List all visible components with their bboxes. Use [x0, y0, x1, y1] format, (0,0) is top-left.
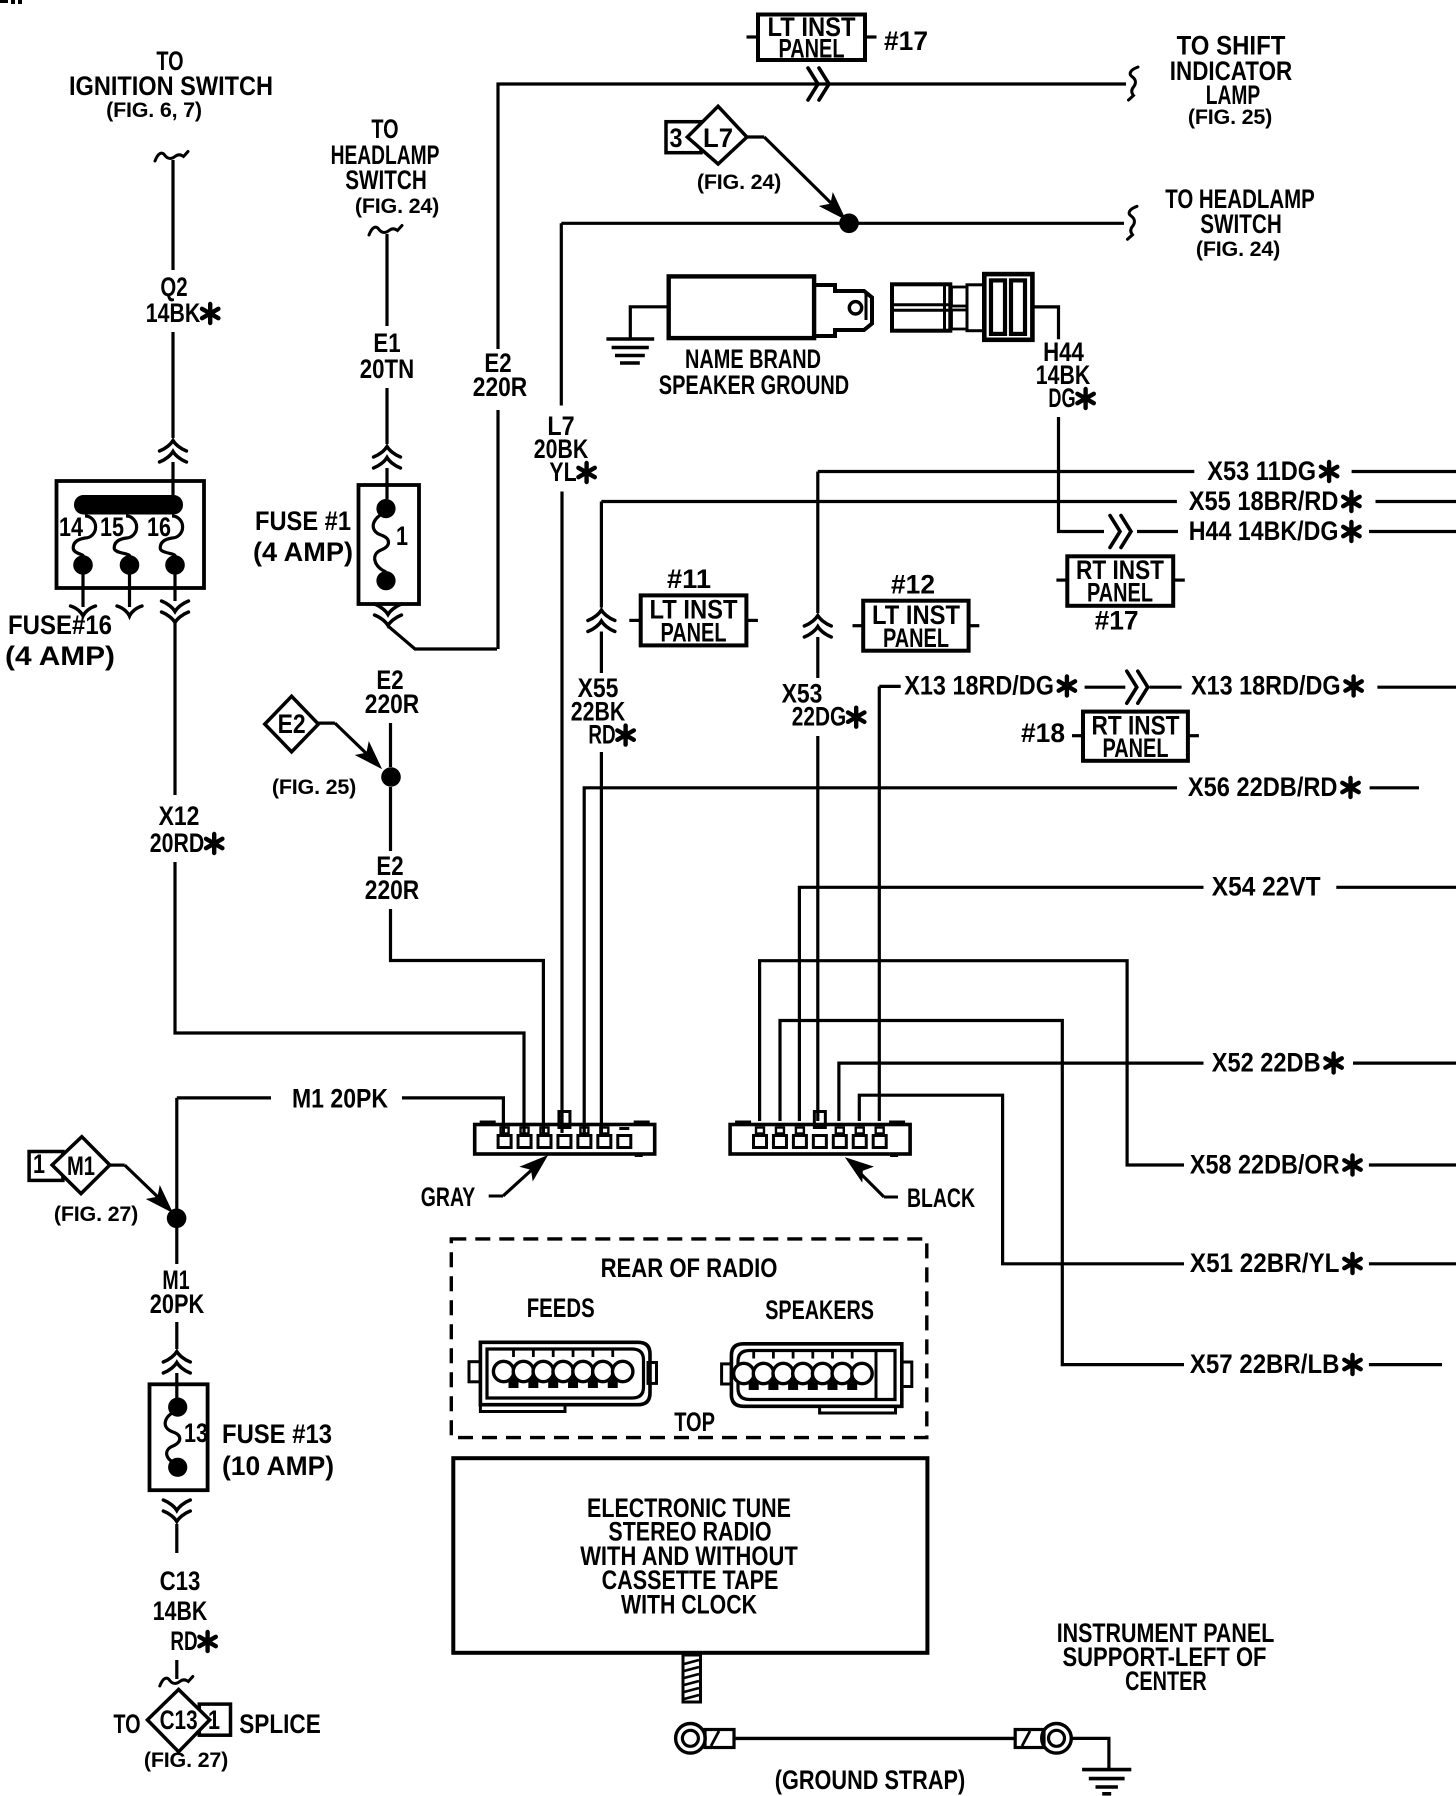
connector SPEAKERS	[731, 1344, 901, 1407]
leader to E2 junction	[335, 723, 370, 757]
pin 2 terminal	[776, 1128, 784, 1134]
wire X56 row right segment	[1370, 786, 1419, 789]
wire Q2 upper segment	[171, 160, 174, 270]
svg-text:(10 AMP): (10 AMP)	[222, 1451, 334, 1481]
wire H44 from socket	[1032, 307, 1058, 339]
wire X51 from BLACK pin6	[859, 1095, 1184, 1264]
svg-text:(4 AMP): (4 AMP)	[5, 641, 115, 671]
wire X51 row to edge	[1369, 1262, 1456, 1265]
wire H44 row to edge	[1369, 530, 1456, 533]
wire M1 to GRAY pin1	[402, 1098, 503, 1133]
speaker blade terminal	[814, 285, 872, 336]
connector FEEDS	[480, 1342, 650, 1404]
pin 7 terminal dash	[619, 1127, 629, 1130]
H44 crimp lower	[952, 310, 968, 329]
wire H44 row segment	[1137, 530, 1178, 533]
svg-text:X52 22DB: X52 22DB	[1212, 1048, 1321, 1078]
svg-text:1: 1	[33, 1149, 45, 1179]
wire X57 row right segment	[1369, 1363, 1442, 1366]
terminal 14 lead	[81, 565, 84, 607]
terminal 15 lead	[128, 565, 131, 607]
svg-text:1: 1	[208, 1705, 220, 1735]
wire X58 from BLACK pin1	[760, 961, 1184, 1165]
pin 2 terminal	[521, 1128, 529, 1134]
pin 1 terminal	[501, 1128, 509, 1134]
wire Q2 lower segment	[171, 332, 174, 438]
svg-text:(FIG. 24): (FIG. 24)	[697, 170, 781, 194]
stub left #11 box	[629, 619, 640, 622]
wire X55 18BR row	[601, 500, 1177, 503]
box ELECTRONIC TUNE STEREO RADIO	[453, 1458, 927, 1653]
continuation chevron below F16	[162, 601, 189, 623]
svg-text:PANEL: PANEL	[1103, 733, 1169, 763]
svg-text:20PK: 20PK	[150, 1289, 205, 1319]
pin 6 terminal	[856, 1128, 864, 1134]
fuse block F16 outline	[57, 481, 205, 588]
terminal 16 lead	[173, 565, 176, 601]
stub left #12 box	[853, 624, 864, 627]
splice symbol C13	[147, 1690, 209, 1752]
svg-text:X58 22DB/OR: X58 22DB/OR	[1190, 1150, 1340, 1180]
wire X13 vertical to BLACK pin7	[878, 686, 881, 1121]
continuation chevron below F1	[375, 604, 402, 626]
fuse F13 outline	[150, 1384, 208, 1490]
wire X12 to GRAY pin2	[175, 862, 524, 1133]
svg-text:X54 22VT: X54 22VT	[1212, 872, 1321, 902]
svg-text:PANEL: PANEL	[779, 34, 845, 64]
wire X13 mid segment	[1085, 686, 1126, 689]
wire X53 vertical mid	[816, 637, 819, 678]
svg-text:3: 3	[670, 123, 683, 153]
wire L7 vertical upper	[560, 223, 563, 405]
svg-text:E2: E2	[278, 709, 306, 739]
svg-text:(FIG. 25): (FIG. 25)	[1188, 105, 1272, 129]
H44 crimp upper	[952, 287, 968, 306]
svg-text:#12: #12	[891, 570, 935, 600]
svg-text:X13 18RD/DG: X13 18RD/DG	[1191, 671, 1341, 701]
svg-text:14BK: 14BK	[146, 298, 201, 328]
svg-text:X53 11DG: X53 11DG	[1207, 456, 1316, 486]
connector box LT INST PANEL #11	[641, 595, 747, 645]
SPEAKERS right tab	[902, 1362, 912, 1387]
splice symbol M1	[52, 1137, 110, 1194]
blade hole	[849, 302, 861, 314]
page edge artifact	[0, 0, 8, 3]
svg-text:PANEL: PANEL	[883, 623, 949, 653]
wire X57 from BLACK pin2	[780, 1021, 1184, 1365]
stub right #12 box	[969, 624, 980, 627]
continuation chevron X53	[804, 616, 831, 638]
wire X55 vertical upper	[600, 502, 603, 608]
wire E1 lower	[385, 388, 388, 444]
connector pin box 1 M1	[29, 1152, 63, 1181]
svg-text:DG: DG	[1048, 383, 1075, 413]
pin 6 cavity	[853, 1136, 866, 1148]
continuation chevron Q2	[160, 441, 187, 463]
inline connector chevron H44	[1110, 516, 1131, 548]
FEEDS contact gaps	[509, 1374, 519, 1388]
wire M1 20PK left segment	[177, 1096, 271, 1099]
svg-text:SPEAKERS: SPEAKERS	[765, 1295, 874, 1325]
threaded stud	[683, 1655, 701, 1702]
svg-text:TOP: TOP	[674, 1407, 715, 1437]
connector pin box 3	[666, 122, 701, 153]
blade bevel line	[865, 294, 868, 320]
ground strap left ring	[676, 1724, 706, 1754]
wire X53 vertical to BLACK pin4	[816, 736, 819, 1121]
leader to junction	[764, 137, 831, 203]
svg-text:(FIG. 27): (FIG. 27)	[54, 1202, 138, 1226]
connector box LT INST PANEL #12	[863, 601, 968, 651]
pin 4 tall pin	[559, 1112, 570, 1128]
svg-text:220R: 220R	[473, 372, 527, 402]
terminal 14 arrow	[71, 606, 96, 616]
svg-text:22DG: 22DG	[792, 702, 846, 732]
wire C13 upper	[175, 1524, 178, 1553]
svg-text:PANEL: PANEL	[1087, 578, 1153, 608]
stub left LT INST PANEL	[747, 35, 759, 38]
wire X55 row to edge	[1376, 500, 1456, 503]
terminal 14 hook and element	[73, 516, 95, 556]
pin 2 cavity	[518, 1136, 531, 1148]
wire X56 from GRAY pin5	[584, 788, 1177, 1133]
wire X12 upper	[173, 623, 176, 795]
svg-text:SPEAKER GROUND: SPEAKER GROUND	[659, 370, 849, 400]
pin 4 cavity	[813, 1136, 826, 1148]
wire X54 row to edge	[1336, 886, 1456, 889]
fuse F1 outline	[359, 485, 420, 604]
svg-text:#17: #17	[1095, 605, 1139, 635]
speaker ground wire	[630, 307, 668, 338]
svg-text:X51 22BR/YL: X51 22BR/YL	[1190, 1248, 1340, 1278]
splice symbol E2	[265, 696, 319, 752]
SPEAKERS contact gaps	[749, 1376, 759, 1390]
wire X55 vertical to GRAY pin6	[600, 752, 603, 1133]
svg-text:FUSE #13: FUSE #13	[222, 1419, 332, 1449]
leader line BLACK	[858, 1171, 884, 1197]
FEEDS right tab	[648, 1363, 657, 1384]
wire E2 to instrument panel #17	[498, 84, 1126, 349]
wire to chassis ground	[1071, 1738, 1109, 1769]
left crimp hatch	[711, 1731, 719, 1746]
connector top tab right	[634, 1121, 650, 1126]
terminal 15 arrow	[117, 606, 142, 616]
continuation chevron above F13	[163, 1352, 190, 1374]
wire L7 to headlamp switch	[561, 222, 1124, 225]
svg-text:(FIG. 24): (FIG. 24)	[355, 194, 439, 218]
ground strap wire	[734, 1737, 1015, 1740]
wire E2 vertical lower part	[496, 410, 499, 649]
svg-text:SWITCH: SWITCH	[1200, 209, 1282, 239]
pin 7 cavity	[873, 1136, 886, 1148]
svg-text:15: 15	[100, 512, 124, 542]
FEEDS left tab	[469, 1362, 480, 1382]
wire X13 segment 2	[1150, 686, 1182, 689]
leader line GRAY	[503, 1166, 536, 1196]
svg-text:220R: 220R	[365, 875, 419, 905]
connector top tab right	[889, 1121, 905, 1126]
wire X54 from BLACK pin3	[799, 887, 1203, 1121]
svg-text:20RD: 20RD	[150, 828, 204, 858]
wire break to ignition switch	[155, 152, 188, 162]
terminal 15 hook and element	[114, 516, 136, 556]
wire X55 vertical mid	[600, 632, 603, 674]
svg-text:WITH CLOCK: WITH CLOCK	[621, 1590, 757, 1620]
pin 5 cavity	[833, 1136, 846, 1148]
svg-text:FEEDS: FEEDS	[527, 1293, 595, 1323]
ground symbol chassis	[1082, 1768, 1131, 1772]
wire E2 to GRAY pin3	[391, 909, 544, 1133]
wire X13 row to edge	[1377, 686, 1456, 689]
fuse F1 element	[373, 512, 388, 572]
svg-text:20TN: 20TN	[360, 354, 414, 384]
junction dot M1	[167, 1209, 187, 1229]
stub left RT INST #17 box	[1056, 578, 1067, 581]
stub right #11 box	[746, 619, 758, 622]
svg-text:#18: #18	[1021, 718, 1065, 748]
wire X52 row to edge	[1353, 1061, 1456, 1064]
pin 1 cavity	[498, 1136, 511, 1148]
SPEAKERS bottom ledge	[820, 1406, 896, 1413]
svg-text:(GROUND STRAP): (GROUND STRAP)	[775, 1765, 965, 1795]
FEEDS pin circles	[493, 1361, 513, 1381]
pin 7 terminal	[876, 1128, 884, 1134]
svg-text:REAR OF RADIO: REAR OF RADIO	[601, 1253, 778, 1283]
stub from E2 diamond	[318, 721, 335, 724]
connector box LT INST PANEL	[758, 15, 865, 61]
leader dash BLACK	[884, 1196, 898, 1199]
svg-text:M1 20PK: M1 20PK	[292, 1084, 388, 1114]
connector top tab left	[735, 1121, 751, 1126]
junction dot L7 wire	[839, 214, 859, 234]
connector body	[730, 1125, 910, 1155]
terminal 14 contact	[73, 555, 93, 575]
connector foot	[635, 1153, 643, 1157]
junction dot E2	[381, 767, 401, 787]
FEEDS bottom ledge	[480, 1405, 565, 1412]
inline connector chevron X13	[1127, 671, 1148, 703]
wire into fuse 1	[385, 468, 388, 499]
svg-text:(FIG. 6, 7): (FIG. 6, 7)	[106, 98, 202, 122]
svg-text:#11: #11	[667, 564, 711, 594]
svg-text:(FIG. 25): (FIG. 25)	[272, 775, 356, 799]
SPEAKERS pin circles	[734, 1363, 754, 1383]
stub from M1 diamond	[110, 1163, 125, 1166]
svg-text:PANEL: PANEL	[661, 618, 727, 648]
svg-text:C13: C13	[160, 1705, 198, 1735]
svg-text:YL: YL	[549, 457, 576, 487]
pin 4 cavity	[558, 1136, 571, 1148]
H44 plug slot 2	[1011, 280, 1025, 334]
svg-text:X57 22BR/LB: X57 22BR/LB	[1190, 1349, 1340, 1379]
svg-text:M1: M1	[67, 1151, 95, 1181]
continuation chevron above F1	[374, 447, 401, 469]
stub right LT INST PANEL	[865, 35, 877, 38]
svg-text:CENTER: CENTER	[1125, 1666, 1207, 1696]
leader arrowhead L7	[820, 194, 851, 225]
pin 6 cavity	[598, 1136, 611, 1148]
fuse F1 top contact	[376, 499, 395, 518]
wire X58 row to edge	[1369, 1163, 1456, 1166]
svg-text:BLACK: BLACK	[907, 1183, 975, 1213]
right crimp hatch	[1022, 1731, 1030, 1746]
svg-text:L7: L7	[703, 123, 733, 153]
fuse F13 bottom contact	[168, 1458, 187, 1477]
wire X53 vertical upper	[816, 472, 819, 614]
svg-text:(4 AMP): (4 AMP)	[253, 537, 353, 567]
wire break to splice	[160, 1677, 193, 1687]
pin 5 cavity	[578, 1136, 591, 1148]
pin 4 tall pin	[814, 1112, 825, 1128]
wire break to headlamp switch	[369, 226, 402, 236]
dashed box REAR OF RADIO	[451, 1239, 927, 1438]
fuse F1 bottom contact	[376, 571, 395, 590]
H44 plug cap	[984, 274, 1032, 340]
svg-text:14BK: 14BK	[153, 1596, 208, 1626]
connector box RT INST PANEL #18	[1083, 712, 1188, 761]
pin 5 terminal	[580, 1128, 588, 1134]
svg-text:14: 14	[59, 512, 83, 542]
wire X53 11DG row	[818, 470, 1195, 473]
leader dash GRAY	[489, 1195, 503, 1198]
svg-text:C13: C13	[160, 1566, 201, 1596]
svg-text:RD: RD	[588, 720, 615, 750]
leader arrowhead BLACK	[840, 1151, 872, 1181]
leader to M1 junction	[125, 1165, 162, 1201]
pin 7 cavity	[618, 1136, 631, 1148]
svg-text:TO: TO	[113, 1709, 140, 1739]
connector body	[475, 1125, 655, 1155]
leader arrowhead E2	[356, 743, 387, 774]
svg-text:X13 18RD/DG: X13 18RD/DG	[904, 671, 1054, 701]
splice symbol L7	[687, 106, 747, 164]
stub right #18 box	[1188, 734, 1199, 737]
svg-text:SPLICE: SPLICE	[239, 1709, 321, 1739]
pin 3 cavity	[538, 1136, 551, 1148]
inline connector chevron on #17 wire	[808, 68, 829, 100]
leader arrowhead M1	[147, 1187, 178, 1218]
svg-text:RD: RD	[170, 1626, 197, 1656]
wire L7 vertical to GRAY pin4	[560, 492, 563, 1134]
svg-text:X56 22DB/RD: X56 22DB/RD	[1188, 772, 1338, 802]
wire E2 mid segment	[389, 723, 392, 767]
svg-text:13: 13	[184, 1418, 208, 1448]
SPEAKERS divider	[875, 1351, 878, 1400]
wire E2 branch to vertical	[388, 626, 497, 649]
ground symbol speaker	[606, 337, 654, 341]
SPEAKERS left tab	[722, 1364, 732, 1384]
svg-text:IGNITION SWITCH: IGNITION SWITCH	[69, 71, 273, 101]
pin 5 terminal	[836, 1128, 844, 1134]
svg-text:(FIG. 24): (FIG. 24)	[1196, 237, 1280, 261]
wire C13 lower	[175, 1660, 178, 1679]
wire break at shift indicator	[1129, 67, 1139, 100]
terminal 16 contact	[165, 555, 185, 575]
connector top tab left	[480, 1121, 496, 1126]
wire E2 below junction	[389, 787, 392, 851]
fuse F13 element	[165, 1410, 180, 1464]
wire X53 row to edge	[1352, 470, 1456, 473]
H44 socket mid line 2	[892, 309, 950, 312]
stub from L7 diamond	[747, 135, 764, 138]
svg-text:1: 1	[396, 521, 408, 551]
speaker body NAME BRAND	[669, 276, 814, 338]
pin 2 cavity	[773, 1136, 786, 1148]
wire M1 vertical upper	[175, 1098, 178, 1264]
wire into fuse block 16	[171, 462, 174, 495]
svg-text:H44 14BK/DG: H44 14BK/DG	[1189, 516, 1339, 546]
pin 3 cavity	[793, 1136, 806, 1148]
leader arrowhead GRAY	[521, 1149, 553, 1180]
pin 1 cavity	[754, 1136, 767, 1148]
right crimp	[1015, 1730, 1044, 1748]
pin 3 terminal	[796, 1128, 804, 1134]
wire break at headlamp switch	[1128, 206, 1138, 239]
wire into fuse 13	[175, 1373, 178, 1400]
fuse F13 top contact	[168, 1398, 187, 1417]
pin 6 terminal	[600, 1128, 608, 1134]
H44 socket mid line 1	[892, 303, 950, 306]
fuse block bus bar	[74, 495, 183, 515]
wire H44 down to row	[1059, 417, 1105, 532]
stub right RT INST #17 box	[1173, 578, 1185, 581]
H44 socket body	[892, 284, 950, 330]
ground strap right ring	[1042, 1724, 1072, 1754]
svg-text:#17: #17	[884, 26, 928, 56]
svg-text:X55 18BR/RD: X55 18BR/RD	[1189, 486, 1339, 516]
H44 plug slot 1	[991, 280, 1005, 334]
left crimp	[705, 1730, 734, 1748]
pin 3 terminal	[541, 1128, 549, 1134]
connector pin box 1 splice	[199, 1704, 230, 1735]
H44 socket inner divider	[943, 284, 946, 330]
svg-text:(FIG. 27): (FIG. 27)	[144, 1748, 228, 1772]
continuation chevron below F13	[163, 1500, 190, 1522]
svg-text:FUSE#16: FUSE#16	[8, 610, 112, 640]
terminal 15 contact	[120, 555, 140, 575]
wire M1 lower	[175, 1322, 178, 1349]
svg-text:X12: X12	[159, 801, 200, 831]
pin 1 terminal	[756, 1128, 764, 1134]
wire X52 from BLACK pin5	[839, 1063, 1204, 1121]
stub left #18 box	[1072, 734, 1083, 737]
H44 neck	[967, 285, 984, 331]
continuation chevron X55	[588, 610, 615, 632]
wire E1 upper	[385, 234, 388, 326]
svg-text:FUSE #1: FUSE #1	[255, 506, 351, 536]
connector foot	[890, 1153, 898, 1157]
svg-text:GRAY: GRAY	[421, 1182, 475, 1212]
wire X13 stub	[879, 685, 900, 688]
terminal 16 hook and element	[160, 516, 182, 556]
svg-text:SWITCH: SWITCH	[345, 165, 427, 195]
connector box RT INST PANEL #17	[1067, 556, 1173, 606]
svg-text:220R: 220R	[365, 689, 419, 719]
